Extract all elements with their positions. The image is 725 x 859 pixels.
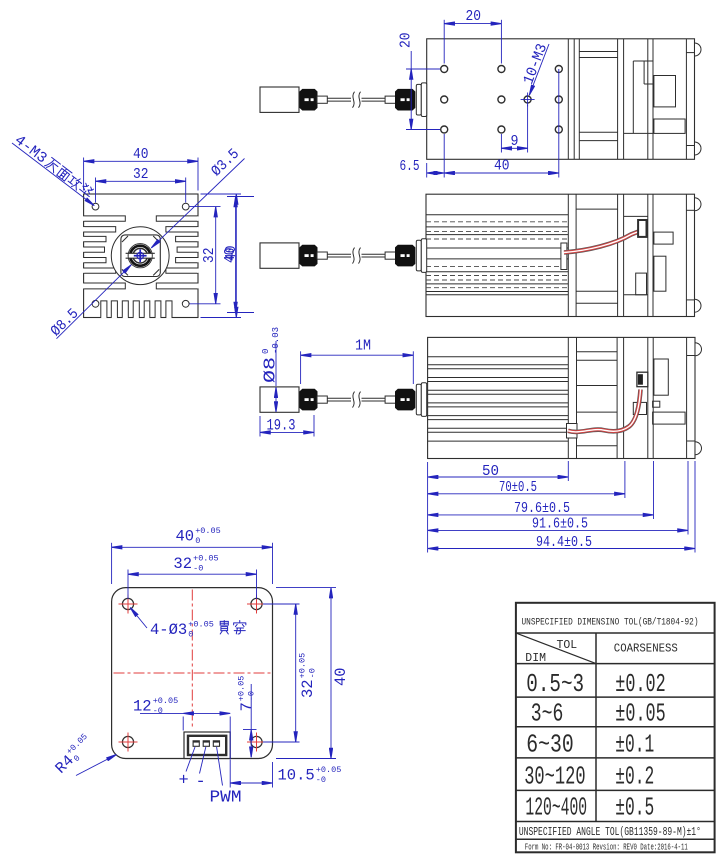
dimension 32 right of heatsink [190,206,221,208]
svg-text:Form No: FR-04-0013 Revsion: R: Form No: FR-04-0013 Revsion: REV0 Date:2… [525,842,688,853]
pcb: board outline [112,588,273,759]
pcb leader 4-dia3 through-hole note [130,608,147,629]
table: column divider [595,633,597,822]
svg-text:10.5: 10.5 [278,767,315,785]
diode mount square [121,235,160,277]
view1 dimension 40 [443,134,445,178]
svg-text:0.5~3: 0.5~3 [526,669,584,699]
view2: end cap screw bumps [695,198,702,211]
view2: heatsink fins solid lines [426,214,568,216]
heatsink bottom comb slots [101,301,107,318]
cable: wire with break symbol [327,253,351,255]
svg-text:0: 0 [195,536,200,546]
svg-text:40: 40 [494,158,510,175]
svg-text:DIM: DIM [525,652,546,665]
svg-text:40: 40 [133,146,149,163]
svg-text:-0: -0 [308,668,318,678]
svg-text:0: 0 [188,630,193,640]
view1 dimension 20 horizontal [443,20,445,64]
svg-text:3~6: 3~6 [531,699,564,729]
dimension 40 right of heatsink [201,193,242,195]
view1: mounting hole grid 10-M3 [441,66,448,73]
svg-text:+0.05: +0.05 [195,526,221,536]
cable: connector nut left [300,245,317,266]
svg-text:UNSPECIFIED DIMENSINO TOL(GB/T: UNSPECIFIED DIMENSINO TOL(GB/T1804-92) [522,617,699,629]
heatsink center circle [111,227,169,285]
cable: ferrule right [385,96,395,103]
view3 dimension 94.4+-0.5 [428,548,695,550]
view3 dimension 79.6+-0.5 [428,514,654,516]
svg-text:PWM: PWM [210,789,242,808]
svg-text:±0.02: ±0.02 [615,669,665,699]
svg-text:1M: 1M [355,338,371,355]
pcb leader R4 corner radius [76,755,117,776]
view1 dimension 9 [500,134,502,153]
view1: bracket window lines [579,51,617,53]
view3 dimension 91.6+-0.5 [428,529,688,531]
view3 dimension 50 [428,476,569,478]
table: header diagonal [516,633,596,664]
svg-text:+0.05: +0.05 [316,765,342,775]
pcb dimension 12 [182,717,184,731]
cable: ferrule left [317,252,327,259]
view2: wire exit block [561,243,567,270]
view2: module side view outline [426,194,695,316]
view2: heatsink fins hidden dashed lines [426,221,568,223]
pcb dimension 40 right [276,587,336,589]
view: heatsink front outline [84,194,198,318]
svg-text:+0.05: +0.05 [298,653,308,679]
cable: connector nut right [396,389,415,410]
view3: end cap screw bumps [695,343,702,356]
pcb dimension 32 top [127,570,129,600]
table: header row line [516,663,715,665]
svg-text:4-Ø3: 4-Ø3 [150,621,187,639]
cable: connector nut right [396,245,415,266]
svg-text:50: 50 [482,463,499,480]
pcb dimension 40 top [111,543,113,584]
pcb dimension 32 right [263,603,300,605]
svg-text:TOL: TOL [557,639,578,652]
svg-text:20: 20 [398,33,415,49]
dimension 40 top of heatsink [83,158,85,191]
cable: washer rings at module [416,84,421,115]
pcb: connector inner frame [188,736,226,755]
pcb: red centerlines [191,590,193,730]
cable: ferrule left [317,396,327,403]
heatsink left fin slots [84,216,126,221]
cable: ferrule left [317,96,327,103]
pcb: mounting holes with red crosses [122,598,133,609]
svg-text:-0.03: -0.03 [271,327,281,354]
svg-text:40: 40 [223,246,240,262]
leader dia 8.5 to ring [57,265,132,339]
svg-text:40: 40 [332,668,350,687]
table: outer border [516,603,715,853]
view3: heatsink fins [428,356,569,358]
svg-text:9: 9 [511,133,519,150]
view3 dimension 19.3 [259,416,261,437]
svg-text:20: 20 [466,8,482,25]
heatsink right fin slots [156,216,198,221]
svg-text:+: + [179,772,189,791]
svg-text:19.3: 19.3 [267,417,296,435]
view3: mid detail box [633,402,646,414]
view3 bottom dimension ext lines [427,462,429,553]
svg-text:-0: -0 [153,706,163,716]
svg-text:-0: -0 [246,691,256,701]
view1: mid detail step [632,61,634,133]
view3: mid horizontals [577,351,618,353]
view1: tapped hole with cross (10-M3 target) [524,96,531,103]
svg-text:6.5: 6.5 [400,158,420,175]
svg-text:Ø8: Ø8 [261,357,280,383]
view3: end cap tab lines [687,355,695,357]
pcb: connector pins [193,741,199,747]
view1 dimension 6.5 [426,163,428,178]
svg-text:UNSPECIFIED ANGLE TOL(GB11359-: UNSPECIFIED ANGLE TOL(GB11359-89-M)±1° [519,825,701,839]
cable: ferrule right [385,396,395,403]
view2: mid horizontals [576,208,618,210]
pcb: pin leader lines [186,747,195,772]
view2 dimension 40 vertical left [227,196,254,198]
svg-text:32: 32 [299,679,317,698]
cable: wire with break symbol [327,397,351,399]
svg-text:-0: -0 [316,775,326,785]
view2: wire connector socket [638,220,646,237]
view1: end cap screw bumps [695,43,702,56]
heatsink corner holes [92,203,99,210]
view1: fan detail boxes [654,76,676,107]
svg-text:32: 32 [173,555,192,573]
cable: connector nut left [300,89,317,110]
cable: connector nut right [396,89,415,110]
svg-text:91.6±0.5: 91.6±0.5 [532,516,588,533]
view3: red wires routed down and right [568,390,641,432]
svg-text:±0.5: ±0.5 [615,793,654,823]
svg-text:+0.05: +0.05 [153,696,179,706]
view2: step box [636,273,647,295]
view3 dimension dia8 tolerance [275,341,277,386]
view2: section vertical lines [567,194,569,316]
table: row lines [516,696,715,698]
svg-text:COARSENESS: COARSENESS [614,643,678,656]
view2: end cap tab lines [686,209,694,211]
svg-text:12: 12 [133,698,152,716]
cable: washer rings at module [416,384,421,415]
cable: plug housing [260,87,299,112]
view3: fan detail boxes [654,359,668,395]
svg-text:6~30: 6~30 [526,730,574,760]
diode mount corner chamfers [122,236,128,242]
svg-text:±0.2: ±0.2 [615,762,654,792]
svg-text:79.6±0.5: 79.6±0.5 [514,500,570,517]
cable: wire with break symbol [327,97,351,99]
pcb dimension 10.5 [229,760,231,788]
leader 4-M3 tapped-from-back note [12,143,94,206]
view3: section vertical lines [567,337,569,458]
svg-text:70±0.5: 70±0.5 [499,479,537,496]
view3: wire connector socket [637,372,648,387]
cable: washer rings at module [416,240,421,271]
center blue cross [134,255,147,257]
cable: plug housing [260,387,299,412]
cable: plug housing [260,243,299,268]
view1 dimension 20 vertical [406,68,440,70]
pcb: connector outer [184,732,230,759]
svg-text:-: - [196,773,206,792]
svg-text:32: 32 [201,248,218,264]
cable: ferrule right [385,252,395,259]
leader dia 3.5 to center [151,159,244,248]
svg-text:40: 40 [176,528,195,546]
pcb dimension 7 [250,684,252,730]
svg-text:+0.05: +0.05 [236,676,246,702]
table: title row line [516,632,715,634]
view3: wire exit notch [567,424,578,439]
svg-text:±0.1: ±0.1 [615,730,654,760]
svg-text:±0.05: ±0.05 [615,699,665,729]
view2: fan detail boxes [654,232,673,244]
view1: end cap tab lines [686,52,694,54]
view1: section vertical lines [567,39,569,160]
view1: module top view outline [427,39,695,160]
svg-text:+0.05: +0.05 [193,554,219,564]
diode ring [128,244,152,268]
svg-text:0: 0 [261,349,271,354]
svg-text:+0.05: +0.05 [188,620,214,630]
diode flange slot [129,253,152,258]
svg-text:-0: -0 [193,564,203,574]
view3 dimension 70+-0.5 [428,493,625,495]
view3: module side view outline [428,337,695,458]
svg-text:32: 32 [133,166,149,183]
svg-text:30~120: 30~120 [524,762,585,792]
svg-text:7: 7 [238,702,256,711]
cable: connector nut left [300,389,317,410]
view1 leader 10-M3 [529,44,549,95]
view2: red wires to connector [564,231,641,253]
view3 dimension 1M [300,351,302,384]
svg-text:94.4±0.5: 94.4±0.5 [536,534,592,551]
svg-text:120~400: 120~400 [525,793,587,823]
dimension 32 top of heatsink [95,178,97,203]
